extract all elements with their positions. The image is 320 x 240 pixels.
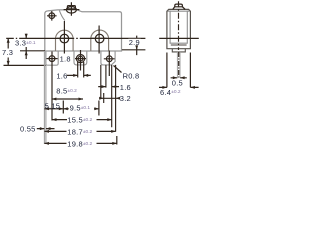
- dim 6.4: [159, 86, 199, 88]
- plunger crosshair: [64, 2, 80, 16]
- mounting hole left: [60, 34, 69, 43]
- svg-text:3.2: 3.2: [120, 94, 131, 103]
- corner arc feature top-left: [59, 11, 64, 21]
- dim 19.8 row (y=143.4): [44, 142, 116, 144]
- side plunger: [173, 4, 185, 9]
- small hole top-left: [49, 13, 55, 19]
- svg-text:1.6: 1.6: [120, 83, 131, 92]
- dim 2.9 (right of front view): [122, 49, 145, 51]
- svg-text:5.15: 5.15: [45, 101, 61, 110]
- dim 15.5 row (y=119.6): [52, 119, 112, 121]
- dim 3.3 vertical (left): [25, 34, 27, 59]
- horizontal center line (dash-dot): [6, 37, 145, 39]
- body bottom extension to left: [20, 50, 45, 52]
- terminal C: [101, 51, 115, 65]
- terminal B: [74, 51, 87, 65]
- terminal bottom extension line: [4, 64, 46, 66]
- mounting boss arch right: [91, 30, 109, 51]
- svg-text:2.9: 2.9: [129, 38, 140, 47]
- dim 7.3 vertical: [7, 38, 9, 65]
- side vertical centerline: [178, 1, 180, 50]
- right-bottom extension lines under terminal C: [101, 65, 116, 132]
- terminal B hole tangent extension lines: [78, 62, 84, 78]
- side horizontal centerline: [159, 37, 199, 39]
- inner lines: [168, 11, 190, 44]
- dim 0.5: [171, 77, 187, 79]
- dim 5.15 + 9.5 row (y=108.3): [44, 108, 99, 110]
- dim 18.7 row (y=131.4): [44, 130, 115, 132]
- dim 1.6 terminal B hole (y=75.4): [67, 74, 91, 76]
- dim 3.2 right (y=98.3): [99, 97, 119, 99]
- R0.8 leader: [114, 66, 122, 73]
- svg-text:7.3: 7.3: [2, 48, 13, 57]
- body outline (front view): [45, 10, 122, 51]
- svg-text:1.6: 1.6: [56, 71, 67, 80]
- center terminal: [177, 52, 180, 78]
- svg-text:1.8: 1.8: [60, 54, 71, 63]
- svg-text:0.55: 0.55: [20, 124, 36, 133]
- dim 0.55 leader (y=128.6): [37, 128, 55, 130]
- terminal A centerline extension (down to 15.5 row): [51, 52, 53, 121]
- mounting hole right: [95, 34, 104, 43]
- side body: [167, 9, 191, 48]
- plunger (top): [67, 6, 75, 9]
- svg-text:0.5: 0.5: [172, 79, 183, 88]
- label 2.9: [128, 38, 141, 47]
- dim 1.6 right (y=86.6): [98, 86, 119, 88]
- mounting boss arch left: [56, 30, 74, 51]
- 6.4 extension lines: [167, 53, 191, 88]
- svg-text:R0.8: R0.8: [123, 72, 140, 81]
- body left edge double extension lines: [44, 51, 46, 144]
- dim 8.5 row (y=99): [52, 98, 83, 100]
- terminal A: [46, 51, 58, 65]
- bottom step: [172, 49, 185, 52]
